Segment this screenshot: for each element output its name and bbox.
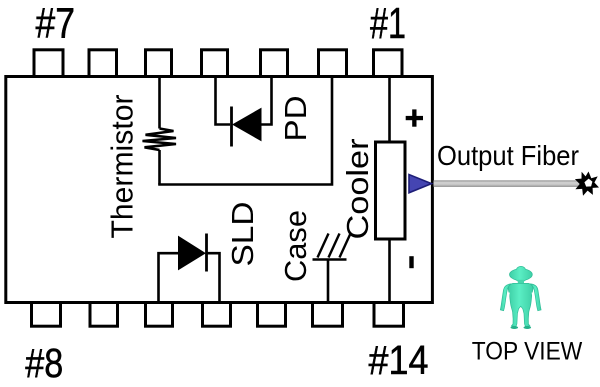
label - (cooler negative, rotated): [409, 256, 413, 268]
wire PD anode lead from pin top D: [216, 77, 231, 125]
svg-text:#8: #8: [25, 340, 63, 386]
svg-text:PD: PD: [278, 96, 313, 142]
package body: [6, 77, 433, 303]
pin top E (PD cathode): [261, 50, 288, 77]
svg-text:TOP VIEW: TOP VIEW: [472, 338, 583, 366]
top view figure: foot shadow left: [511, 326, 519, 329]
fiber end star center hole: [584, 179, 592, 187]
ground (case) bar: [313, 258, 347, 261]
SLD diode triangle: [179, 237, 206, 270]
pin top G (cooler +, below label #1): [374, 50, 403, 77]
svg-text:Cooler: Cooler: [340, 139, 375, 240]
output fiber: [434, 180, 582, 187]
ground (case) hatch 2: [329, 234, 340, 258]
top view figure: left armpit gap: [506, 293, 509, 311]
top view figure: head: [509, 266, 532, 281]
SLD diode cathode bar: [205, 234, 208, 272]
photodiode PD cathode bar: [230, 107, 233, 147]
svg-text:#1: #1: [370, 0, 406, 48]
top view figure: right shoulder and arm: [531, 284, 542, 311]
top view figure: foot shadow right: [524, 326, 532, 329]
wire thermistor bottom lead: [158, 150, 161, 185]
svg-text:SLD: SLD: [225, 202, 260, 267]
wire cooler top lead from pin top G: [388, 77, 391, 141]
label + (cooler positive) vertical bar: [412, 109, 416, 126]
pin bottom C (SLD anode): [146, 303, 173, 327]
pin bottom E: [258, 303, 286, 327]
svg-text:#7: #7: [36, 0, 76, 48]
photodiode PD triangle: [233, 109, 261, 141]
thermistor RT zigzag element: [143, 129, 177, 151]
wire PD cathode lead to pin top E: [261, 77, 272, 125]
pin bottom D (SLD cathode): [203, 303, 231, 327]
svg-text:Thermistor: Thermistor: [105, 95, 140, 239]
pin top A (below label #7): [34, 50, 63, 77]
wire SLD anode lead from pin bottom C: [159, 253, 179, 302]
svg-text:#14: #14: [369, 337, 429, 383]
pin top F (thermistor return): [319, 50, 347, 77]
wire thermistor return rail to pin top F: [158, 77, 332, 185]
svg-text:Case: Case: [278, 210, 313, 282]
label + (cooler positive) horizontal bar: [406, 116, 423, 120]
ground (case) hatch 1: [318, 234, 329, 258]
top view figure: torso and legs: [508, 283, 533, 326]
wire cooler bottom lead to pin bottom G: [388, 239, 391, 302]
top view figure: neck: [518, 280, 524, 285]
pin bottom F (case): [313, 303, 343, 327]
fiber coupling lens (blue triangle): [409, 175, 432, 193]
pin bottom A (above label #8): [32, 303, 61, 327]
cooler TEC body: [376, 142, 406, 239]
wire thermistor top lead: [158, 77, 161, 129]
wire SLD cathode lead to pin bottom D: [207, 253, 220, 302]
ground (case) hatch 3: [340, 234, 351, 258]
pin top C (thermistor): [146, 50, 172, 77]
top view figure: left shoulder and arm: [500, 284, 511, 311]
pin bottom B: [90, 303, 118, 327]
svg-text:Output Fiber: Output Fiber: [437, 140, 579, 171]
pin bottom G (cooler -, above label #14): [374, 303, 404, 327]
fiber end star: [575, 172, 599, 196]
pin top B: [89, 50, 117, 77]
wire case lead from pin bottom F: [327, 260, 330, 303]
top view figure: right armpit gap: [532, 293, 535, 311]
pin top D (PD anode): [202, 50, 228, 77]
